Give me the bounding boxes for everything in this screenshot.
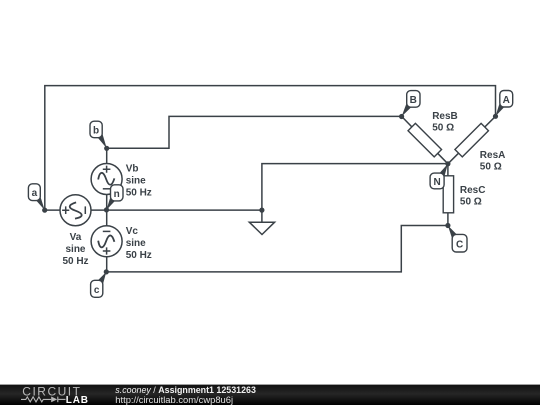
svg-text:50 Hz: 50 Hz — [126, 250, 152, 261]
svg-text:sine: sine — [126, 238, 146, 249]
wire vertical through Vb and Vc — [106, 148, 108, 272]
wire ResB diagonal lead — [402, 116, 448, 163]
svg-text:LAB: LAB — [66, 395, 89, 405]
svg-text:ResB: ResB — [432, 111, 458, 122]
junction dot b — [104, 146, 109, 151]
svg-text:N: N — [433, 177, 440, 188]
junction dot ground — [259, 208, 264, 213]
svg-text:Va: Va — [70, 232, 82, 243]
wire net a: left vertical + top horizontal + drop to A — [45, 86, 496, 211]
svg-text:B: B — [410, 95, 417, 106]
junction dot A — [493, 114, 498, 119]
svg-text:50 Ω: 50 Ω — [432, 123, 454, 134]
node a flag — [28, 184, 44, 210]
svg-text:sine: sine — [126, 176, 146, 187]
wire net b: from b junction right, up, right to B — [107, 116, 402, 148]
node c flag — [91, 272, 107, 297]
junction dot n — [104, 207, 109, 212]
svg-text:ResA: ResA — [480, 150, 506, 161]
node b flag — [90, 121, 107, 148]
footer bar — [0, 385, 540, 405]
svg-text:sine: sine — [65, 244, 85, 255]
voltage source Vb — [91, 164, 122, 195]
svg-text:b: b — [93, 125, 99, 136]
wire riser from ground node up and right to N — [262, 164, 448, 223]
svg-text:Vc: Vc — [126, 226, 139, 237]
resistor ResA — [455, 123, 489, 157]
resistor ResB — [408, 123, 442, 157]
ground — [249, 222, 274, 234]
voltage source Va — [60, 195, 91, 226]
svg-text:http://circuitlab.com/cwp8u6j: http://circuitlab.com/cwp8u6j — [115, 394, 233, 405]
svg-text:ResC: ResC — [460, 185, 486, 196]
svg-text:C: C — [456, 240, 463, 251]
svg-text:50 Hz: 50 Hz — [62, 256, 88, 267]
wire net C: from ResC bottom left, down, left to c — [106, 226, 448, 272]
node n flag — [107, 185, 124, 210]
junction dot B — [399, 114, 404, 119]
wire ResC vertical lead — [447, 164, 449, 226]
svg-text:a: a — [32, 188, 38, 199]
svg-text:50 Ω: 50 Ω — [480, 161, 502, 172]
svg-text:n: n — [114, 189, 120, 200]
resistor ResC — [443, 176, 453, 213]
junction dot a — [42, 208, 47, 213]
junction dot C — [445, 223, 450, 228]
junction dot c — [104, 269, 109, 274]
svg-text:A: A — [503, 95, 510, 106]
node N flag — [430, 164, 448, 189]
junction dot N — [445, 161, 450, 166]
svg-text:50 Hz: 50 Hz — [126, 188, 152, 199]
svg-text:c: c — [94, 285, 100, 296]
svg-text:Vb: Vb — [126, 164, 139, 175]
wire ResA diagonal lead — [448, 116, 496, 164]
wire main horizontal net n — [45, 209, 262, 211]
node A flag — [496, 91, 513, 117]
node C flag — [448, 226, 467, 253]
node B flag — [402, 91, 420, 117]
footer logo resistor-diode line — [21, 397, 66, 403]
svg-text:50 Ω: 50 Ω — [460, 197, 482, 208]
voltage source Vc — [91, 226, 122, 257]
